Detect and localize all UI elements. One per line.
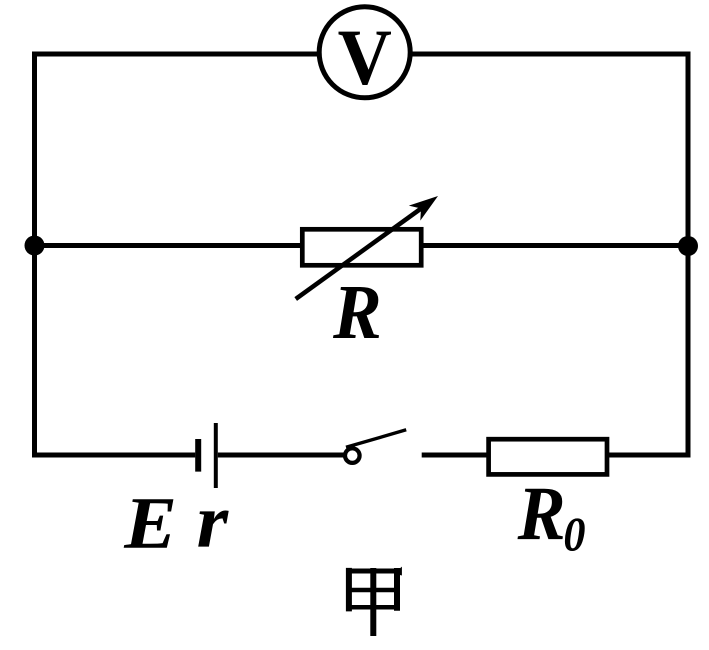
switch S lever: [346, 430, 406, 448]
resistor R0 value label: [518, 489, 563, 539]
battery E,r short plate (negative): [195, 439, 201, 472]
resistor R arrow shaft: [296, 204, 428, 300]
wire bottom far-left segment: [35, 453, 196, 458]
battery label E: [124, 499, 174, 548]
switch S pivot circle: [345, 448, 360, 463]
wire left vertical: [32, 52, 37, 458]
wire switch-to-R0 segment: [422, 453, 488, 458]
voltmeter V1 circle: [319, 7, 410, 98]
caption 甲 (figure label): [346, 567, 402, 636]
resistor R arrowhead: [409, 196, 438, 221]
voltmeter V1 label V: [339, 32, 392, 85]
battery E,r long plate (positive): [214, 423, 218, 488]
node left junction: [25, 236, 45, 256]
wire top-left segment: [35, 52, 318, 57]
wire R0-to-right segment: [607, 453, 688, 458]
wire middle-right segment: [422, 243, 689, 248]
wire middle-left segment: [35, 243, 303, 248]
battery label r: [198, 511, 229, 547]
node right junction: [678, 236, 698, 256]
wire right vertical: [686, 52, 691, 458]
resistor R body: [302, 229, 421, 265]
resistor R0 subscript 0: [565, 518, 585, 551]
wire battery-to-switch segment: [218, 453, 345, 458]
wire top-right segment: [413, 52, 689, 57]
resistor R value label: [333, 287, 379, 338]
resistor R0 body: [489, 439, 607, 474]
